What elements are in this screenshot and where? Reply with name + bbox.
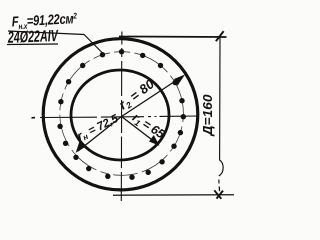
- svg-text:Д=160: Д=160: [200, 94, 215, 137]
- svg-text:24Ø22АIV: 24Ø22АIV: [7, 28, 59, 48]
